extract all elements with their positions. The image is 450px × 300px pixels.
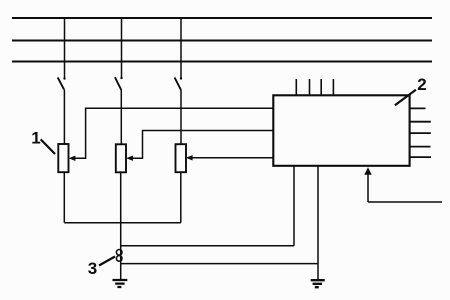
svg-text:1: 1 — [31, 129, 40, 148]
svg-text:3: 3 — [88, 259, 97, 278]
svg-text:2: 2 — [417, 75, 426, 94]
